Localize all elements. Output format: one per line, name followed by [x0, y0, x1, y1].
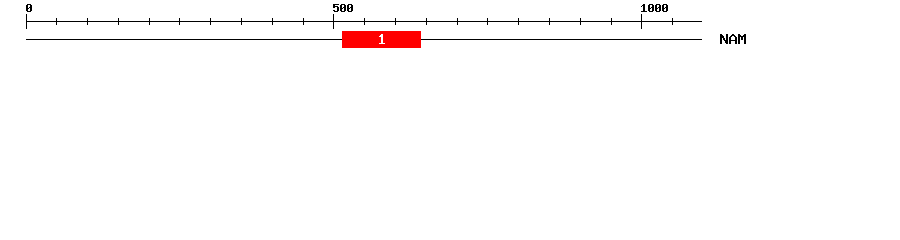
track label NAM: [720, 34, 746, 44]
minor tick 250 (x=179): [179, 18, 180, 25]
minor tick 1050 (x=672): [672, 18, 673, 25]
minor tick 200 (x=149): [149, 18, 150, 25]
domain number 1 (white): [379, 34, 385, 44]
minor tick 750 (x=487): [487, 18, 488, 25]
minor tick 850 (x=549): [549, 18, 550, 25]
minor tick 350 (x=241): [241, 18, 242, 25]
minor tick 550 (x=364): [364, 18, 365, 25]
minor tick 300 (x=210): [210, 18, 211, 25]
minor tick 450 (x=303): [303, 18, 304, 25]
domain box 1 (red, aa ~514-640): [342, 31, 421, 48]
minor tick 100 (x=87): [87, 18, 88, 25]
minor tick 700 (x=457): [457, 18, 458, 25]
minor tick 800 (x=518): [518, 18, 519, 25]
minor tick 600 (x=395): [395, 18, 396, 25]
ruler label 0: [26, 4, 32, 12]
minor tick 650 (x=426): [426, 18, 427, 25]
minor tick 950 (x=611): [611, 18, 612, 25]
major tick 1000 (x=641): [641, 14, 642, 29]
minor tick 400 (x=272): [272, 18, 273, 25]
ruler scale line (0..1096): [26, 21, 702, 22]
protein backbone line: [26, 39, 702, 40]
major tick 500 (x=333): [333, 14, 334, 29]
minor tick 50 (x=56): [56, 18, 57, 25]
major tick 0 (x=26): [26, 14, 27, 29]
minor tick 150 (x=118): [118, 18, 119, 25]
minor tick 900 (x=580): [580, 18, 581, 25]
ruler label 500: [333, 4, 353, 12]
ruler label 1000: [641, 4, 668, 12]
